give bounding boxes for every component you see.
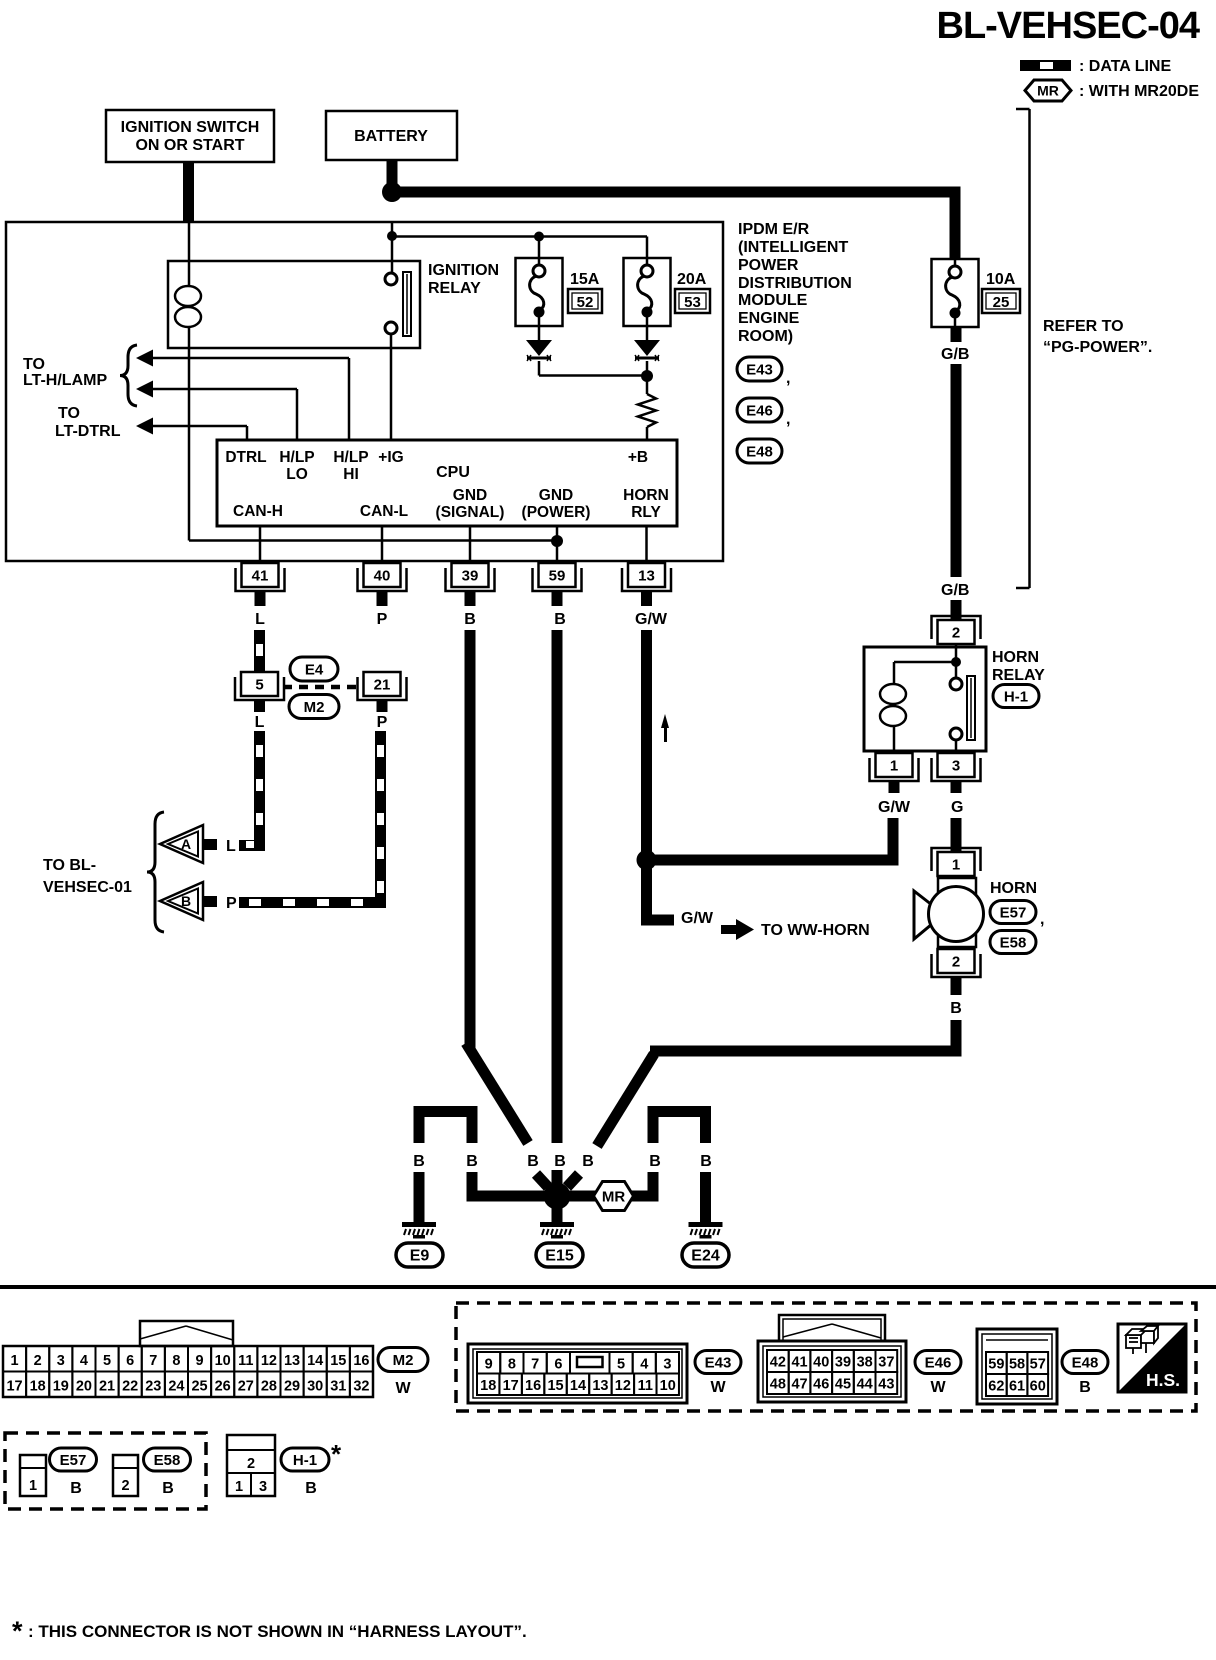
- svg-text:31: 31: [330, 1379, 346, 1395]
- wire G/W down to WW-HORN: [641, 868, 652, 926]
- fuse 20A number 53: [675, 289, 710, 313]
- wire CAN-H drop: [259, 526, 262, 563]
- svg-text:5: 5: [617, 1357, 625, 1373]
- svg-text:B: B: [1079, 1379, 1091, 1396]
- refer to PG-POWER bracket: [1016, 108, 1030, 111]
- svg-text:G/W: G/W: [681, 910, 714, 927]
- svg-text:: WITH MR20DE: : WITH MR20DE: [1079, 83, 1199, 100]
- connector 2 horn relay: [932, 616, 981, 639]
- connector E43 oval: [737, 357, 782, 381]
- svg-text:BATTERY: BATTERY: [354, 128, 428, 145]
- relay coil: [188, 278, 191, 285]
- wire B horn stub to junction: [567, 1174, 579, 1187]
- svg-text:E43: E43: [746, 361, 773, 378]
- svg-text:+IG: +IG: [378, 449, 403, 466]
- connector H-1 oval 2: [281, 1448, 329, 1471]
- horn relay name H-1: [993, 685, 1039, 708]
- wire resistor to +B: [646, 427, 649, 440]
- horn circle: [929, 887, 984, 942]
- svg-text:4: 4: [80, 1353, 88, 1369]
- svg-text:41: 41: [252, 568, 269, 585]
- svg-text:14: 14: [307, 1353, 323, 1369]
- wire B 59 stub to junction: [552, 1170, 563, 1184]
- svg-text:15A: 15A: [570, 271, 600, 288]
- svg-text:: DATA LINE: : DATA LINE: [1079, 58, 1171, 75]
- svg-text:5: 5: [255, 677, 263, 694]
- svg-text:B: B: [950, 1000, 962, 1017]
- svg-text:IPDM E/R: IPDM E/R: [738, 221, 810, 238]
- svg-text:RLY: RLY: [631, 504, 661, 521]
- svg-text:2: 2: [952, 625, 960, 642]
- svg-text:HORN: HORN: [623, 487, 669, 504]
- svg-text:B: B: [305, 1480, 317, 1497]
- svg-text:W: W: [395, 1380, 411, 1397]
- horn relay contact upper: [950, 678, 962, 690]
- connector E58 cavity: [113, 1455, 138, 1496]
- wire stub pin1: [889, 781, 900, 793]
- svg-text:1: 1: [11, 1353, 19, 1369]
- svg-text:9: 9: [196, 1353, 204, 1369]
- connector E48 oval: [737, 439, 782, 463]
- wire ignition switch inside: [188, 222, 191, 278]
- svg-text:E9: E9: [410, 1248, 430, 1265]
- svg-text:B: B: [162, 1480, 174, 1497]
- svg-text:2: 2: [121, 1478, 129, 1494]
- wire stub B: [203, 896, 217, 907]
- junction battery inside: [387, 231, 397, 241]
- wire bus down to fuse 10A: [950, 192, 961, 259]
- junction +B: [641, 370, 653, 382]
- flow arrow up: [661, 714, 669, 728]
- connector 2 horn: [932, 954, 981, 977]
- svg-text:17: 17: [6, 1379, 22, 1395]
- svg-text:CAN-H: CAN-H: [233, 503, 283, 520]
- connector E46 oval 2: [915, 1351, 961, 1374]
- wire stub horn B: [951, 977, 962, 995]
- MR hexagon on ground bus: [594, 1182, 634, 1211]
- battery box: [326, 111, 457, 160]
- arrow to WW-HORN: [721, 925, 738, 934]
- svg-text:32: 32: [353, 1379, 369, 1395]
- dashed box engine connectors: [456, 1303, 1196, 1411]
- svg-text:5: 5: [103, 1353, 111, 1369]
- svg-text:G/W: G/W: [878, 799, 911, 816]
- wire B 39 diagonal: [466, 1043, 528, 1143]
- svg-text:19: 19: [53, 1379, 69, 1395]
- fuse 10A: [932, 259, 979, 327]
- wire battery bus to right: [392, 187, 961, 198]
- horn name E58: [990, 931, 1036, 954]
- svg-text:14: 14: [570, 1378, 586, 1394]
- svg-text:POWER: POWER: [738, 257, 799, 274]
- fuse 20A: [624, 258, 671, 326]
- svg-text:20A: 20A: [677, 271, 707, 288]
- svg-text:12: 12: [261, 1353, 277, 1369]
- wire GND SIGNAL drop: [469, 526, 472, 563]
- svg-text:42: 42: [770, 1355, 786, 1371]
- svg-text:20: 20: [76, 1379, 92, 1395]
- wire stub 41: [255, 591, 266, 606]
- wire B from 59: [552, 630, 563, 1143]
- svg-text:B: B: [70, 1480, 82, 1497]
- svg-text:23: 23: [145, 1379, 161, 1395]
- svg-text:10: 10: [215, 1353, 231, 1369]
- svg-text:61: 61: [1009, 1379, 1025, 1395]
- svg-text:15: 15: [330, 1353, 346, 1369]
- svg-text:: THIS CONNECTOR IS NOT SHOWN: : THIS CONNECTOR IS NOT SHOWN IN “HARNES…: [28, 1622, 527, 1641]
- wire stub 40: [377, 591, 388, 606]
- wire stub below 21: [377, 700, 388, 712]
- svg-text:1: 1: [29, 1478, 37, 1494]
- svg-text:40: 40: [813, 1355, 829, 1371]
- svg-text:57: 57: [1030, 1357, 1046, 1373]
- svg-text:28: 28: [261, 1379, 277, 1395]
- svg-text:TO: TO: [23, 356, 45, 373]
- wire H/LP LO: [153, 388, 297, 391]
- svg-text:B: B: [466, 1153, 478, 1170]
- resistor: [638, 394, 656, 427]
- fuse 10A number 25: [982, 289, 1020, 313]
- svg-text:25: 25: [993, 294, 1010, 311]
- svg-text:B: B: [700, 1153, 712, 1170]
- ignition switch box: [106, 110, 274, 162]
- svg-text:9: 9: [485, 1357, 493, 1373]
- ground E24: [689, 1222, 723, 1227]
- svg-text:59: 59: [988, 1357, 1004, 1373]
- svg-text:BL-VEHSEC-04: BL-VEHSEC-04: [937, 5, 1200, 47]
- svg-text:RELAY: RELAY: [992, 667, 1045, 684]
- horn relay armature: [967, 676, 975, 740]
- connector M2 oval: [378, 1348, 428, 1372]
- svg-text:13: 13: [284, 1353, 300, 1369]
- svg-text:E43: E43: [705, 1354, 732, 1371]
- wire to fuses: [392, 235, 647, 238]
- connector E43 oval 2: [695, 1351, 741, 1374]
- connector E57 cavity: [20, 1455, 46, 1496]
- fuse 15A number 52: [568, 289, 602, 313]
- wire E24 branch: [566, 1191, 659, 1202]
- svg-text:25: 25: [191, 1379, 207, 1395]
- pin 39: [446, 568, 495, 591]
- svg-text:G/B: G/B: [941, 346, 969, 363]
- connector pin 5: [235, 677, 284, 700]
- wire coil to DTRL row: [188, 348, 191, 541]
- wire to fuse 15A: [538, 237, 541, 259]
- ground junction E15: [544, 1183, 571, 1210]
- svg-text:22: 22: [122, 1379, 138, 1395]
- svg-text:DISTRIBUTION: DISTRIBUTION: [738, 275, 852, 292]
- svg-text:MR: MR: [602, 1188, 625, 1205]
- legend MR symbol: [1025, 80, 1071, 101]
- horn relay wire in: [955, 644, 958, 658]
- junction fuse 15A tap: [534, 232, 544, 242]
- svg-text:,: ,: [1040, 911, 1044, 928]
- svg-text:2: 2: [952, 954, 960, 971]
- svg-text:7: 7: [149, 1353, 157, 1369]
- svg-text:TO: TO: [58, 405, 80, 422]
- wire stub 13: [641, 591, 652, 606]
- svg-text:44: 44: [857, 1377, 873, 1393]
- horn relay contact lower: [950, 728, 962, 740]
- svg-text:45: 45: [835, 1377, 851, 1393]
- svg-text:E4: E4: [305, 661, 324, 678]
- svg-text:LT-H/LAMP: LT-H/LAMP: [23, 372, 107, 389]
- svg-text:10A: 10A: [986, 271, 1016, 288]
- svg-text:2: 2: [247, 1456, 255, 1472]
- wire diode 15A to junction: [538, 361, 541, 376]
- wire stub 59: [552, 591, 563, 606]
- wire CAN-L drop: [381, 526, 384, 563]
- svg-text:P: P: [377, 611, 388, 628]
- svg-text:W: W: [710, 1379, 726, 1396]
- svg-text:8: 8: [508, 1357, 516, 1373]
- arrow to LT-H/LAMP 1: [136, 350, 153, 367]
- svg-text:E24: E24: [691, 1248, 720, 1265]
- junction GND POWER: [551, 535, 563, 547]
- svg-text:E46: E46: [925, 1354, 952, 1371]
- svg-text:E57: E57: [1000, 904, 1027, 921]
- svg-text:P: P: [226, 895, 237, 912]
- wire stub below 5: [254, 700, 265, 712]
- wire G/W junction to relay: [653, 855, 899, 866]
- svg-text:30: 30: [307, 1379, 323, 1395]
- svg-text:HORN: HORN: [990, 880, 1037, 897]
- data line L upper: [254, 630, 265, 672]
- dashed box horn connectors: [5, 1433, 206, 1509]
- wire B horn down: [951, 1020, 962, 1057]
- H.S. view logo: [1118, 1324, 1186, 1392]
- svg-text:CAN-L: CAN-L: [360, 503, 408, 520]
- wire battery down: [387, 160, 398, 192]
- svg-text:26: 26: [215, 1379, 231, 1395]
- wire ignition switch to IPDM: [183, 162, 194, 223]
- wire B from 39: [465, 630, 476, 1048]
- ground E15: [540, 1222, 574, 1227]
- diode under 15A: [538, 326, 541, 340]
- connector M2 table: [140, 1321, 233, 1346]
- data line L lower: [254, 731, 265, 846]
- svg-text:12: 12: [615, 1378, 631, 1394]
- svg-text:H/LP: H/LP: [333, 449, 368, 466]
- horn body: [938, 878, 976, 947]
- wire E9 branch: [467, 1191, 549, 1202]
- svg-text:B: B: [527, 1153, 539, 1170]
- svg-text:L: L: [255, 714, 265, 731]
- svg-text:16: 16: [525, 1378, 541, 1394]
- svg-text:B: B: [554, 1153, 566, 1170]
- svg-text:GND: GND: [453, 487, 487, 504]
- svg-text:H.S.: H.S.: [1146, 1370, 1180, 1390]
- svg-text:38: 38: [857, 1355, 873, 1371]
- connector E43 table: [468, 1344, 687, 1403]
- relay contact lower: [385, 322, 397, 334]
- svg-text:37: 37: [878, 1355, 894, 1371]
- svg-text:(POWER): (POWER): [522, 504, 591, 521]
- svg-text:E57: E57: [60, 1452, 87, 1469]
- svg-text:P: P: [377, 714, 388, 731]
- connector E46 oval: [737, 398, 782, 422]
- svg-text:11: 11: [238, 1353, 253, 1369]
- svg-text:H-1: H-1: [1004, 688, 1028, 705]
- svg-text:MR: MR: [1037, 82, 1059, 98]
- wire stub pin3: [951, 781, 962, 793]
- wire stub A: [203, 839, 217, 850]
- wire relay to +IG: [390, 334, 393, 440]
- pin 13: [622, 568, 671, 591]
- svg-text:IGNITION SWITCH: IGNITION SWITCH: [121, 119, 260, 136]
- arrow to LT-H/LAMP 2: [136, 381, 153, 398]
- svg-text:GND: GND: [539, 487, 573, 504]
- svg-text:1: 1: [235, 1479, 243, 1495]
- wire diode 20A down: [646, 361, 649, 394]
- svg-text:“PG-POWER”.: “PG-POWER”.: [1043, 339, 1152, 356]
- svg-text:M2: M2: [393, 1352, 414, 1369]
- wire HORN RLY drop: [645, 526, 648, 563]
- svg-text:18: 18: [480, 1378, 496, 1394]
- svg-text:62: 62: [988, 1379, 1004, 1395]
- svg-text:RELAY: RELAY: [428, 280, 481, 297]
- svg-text:IGNITION: IGNITION: [428, 262, 499, 279]
- connector E58 oval 2: [144, 1448, 191, 1471]
- ignition relay box: [168, 261, 420, 348]
- svg-text:6: 6: [126, 1353, 134, 1369]
- pin 59: [533, 568, 582, 591]
- wire G/W vertical: [641, 630, 652, 860]
- svg-text:24: 24: [168, 1379, 184, 1395]
- svg-text:16: 16: [353, 1353, 369, 1369]
- svg-text:59: 59: [549, 568, 566, 585]
- svg-text:3: 3: [259, 1479, 267, 1495]
- separator line: [0, 1285, 1216, 1289]
- svg-text:2: 2: [34, 1353, 42, 1369]
- ground name E9: [396, 1243, 443, 1267]
- svg-text:*: *: [331, 1439, 342, 1469]
- svg-text:E58: E58: [154, 1452, 181, 1469]
- wire B 39 stub to junction: [536, 1174, 548, 1187]
- svg-text:52: 52: [577, 294, 594, 311]
- triangle node A: [160, 825, 203, 863]
- svg-text:47: 47: [791, 1377, 807, 1393]
- pin 3 horn relay: [932, 758, 981, 781]
- dashed connector line: [283, 685, 361, 690]
- svg-text:REFER TO: REFER TO: [1043, 318, 1124, 335]
- svg-text:G/B: G/B: [941, 582, 969, 599]
- svg-text:17: 17: [503, 1378, 519, 1394]
- svg-text:M2: M2: [304, 699, 325, 716]
- svg-text:TO BL-: TO BL-: [43, 857, 96, 874]
- svg-text:6: 6: [554, 1357, 562, 1373]
- horn name E57: [990, 901, 1036, 924]
- svg-text:29: 29: [284, 1379, 300, 1395]
- wire G to horn: [951, 818, 962, 852]
- fuse 15A: [516, 258, 563, 326]
- svg-text:L: L: [226, 838, 236, 855]
- svg-text:1: 1: [952, 857, 960, 874]
- connector E57 oval 2: [50, 1448, 97, 1471]
- svg-text:B: B: [582, 1153, 594, 1170]
- svg-text:E48: E48: [1072, 1354, 1099, 1371]
- horn relay contact wire: [955, 666, 958, 678]
- pin 40: [358, 568, 407, 591]
- svg-text:10: 10: [660, 1378, 676, 1394]
- svg-text:CPU: CPU: [436, 464, 470, 481]
- svg-text:(SIGNAL): (SIGNAL): [436, 504, 505, 521]
- svg-text:ENGINE: ENGINE: [738, 310, 800, 327]
- svg-text:53: 53: [684, 294, 701, 311]
- wire battery inside: [391, 222, 394, 273]
- horn funnel: [914, 891, 932, 939]
- pin 41: [236, 568, 285, 591]
- pin 1 horn relay: [870, 758, 919, 781]
- svg-text:18: 18: [30, 1379, 46, 1395]
- connector 1 horn: [932, 848, 981, 871]
- diode under 20A: [646, 326, 649, 340]
- svg-text:46: 46: [813, 1377, 829, 1393]
- svg-text:VEHSEC-01: VEHSEC-01: [43, 879, 132, 896]
- svg-text:11: 11: [638, 1378, 653, 1394]
- IPDM E/R box: [6, 222, 723, 561]
- svg-text:60: 60: [1030, 1379, 1046, 1395]
- svg-text:ROOM): ROOM): [738, 328, 793, 345]
- svg-text:E48: E48: [746, 443, 773, 460]
- svg-text:G/W: G/W: [635, 611, 668, 628]
- svg-text:H-1: H-1: [293, 1452, 317, 1469]
- wire stub 39: [465, 591, 476, 606]
- svg-text:40: 40: [374, 568, 391, 585]
- svg-text:1: 1: [890, 758, 898, 775]
- horn relay box: [864, 647, 986, 751]
- relay armature bar: [403, 272, 411, 336]
- svg-text:43: 43: [878, 1377, 894, 1393]
- svg-text:,: ,: [786, 370, 790, 387]
- relay contact upper: [385, 273, 397, 285]
- svg-text:B: B: [554, 611, 566, 628]
- svg-text:HORN: HORN: [992, 649, 1039, 666]
- svg-text:3: 3: [57, 1353, 65, 1369]
- svg-text:E15: E15: [545, 1248, 574, 1265]
- svg-text:8: 8: [172, 1353, 180, 1369]
- svg-text:A: A: [181, 836, 191, 852]
- svg-text:L: L: [255, 611, 265, 628]
- brace LT-H/LAMP: [120, 345, 137, 406]
- wire G/B stub: [951, 327, 962, 342]
- connector pin 21: [358, 677, 407, 700]
- svg-text:7: 7: [531, 1357, 539, 1373]
- svg-text:ON OR START: ON OR START: [135, 137, 244, 154]
- svg-text:48: 48: [770, 1377, 786, 1393]
- svg-text:E58: E58: [1000, 934, 1027, 951]
- svg-text:27: 27: [238, 1379, 254, 1395]
- svg-text:LO: LO: [286, 466, 308, 483]
- svg-text:39: 39: [462, 568, 479, 585]
- svg-text:B: B: [181, 893, 191, 909]
- junction G/W: [637, 850, 657, 870]
- connector M2 oval: [289, 695, 339, 719]
- wire E15 stub: [552, 1205, 563, 1222]
- connector E48 table: [977, 1329, 1057, 1404]
- svg-text:+B: +B: [628, 449, 648, 466]
- svg-text:E46: E46: [746, 402, 773, 419]
- CPU box: [217, 440, 677, 526]
- connector E48 oval 2: [1062, 1351, 1108, 1374]
- svg-text:W: W: [930, 1379, 946, 1396]
- svg-text:B: B: [464, 611, 476, 628]
- ground name E24: [682, 1243, 729, 1267]
- data line P lower: [375, 731, 386, 903]
- svg-text:G: G: [951, 799, 963, 816]
- svg-text:H/LP: H/LP: [279, 449, 314, 466]
- connector H-1 table: [227, 1435, 275, 1496]
